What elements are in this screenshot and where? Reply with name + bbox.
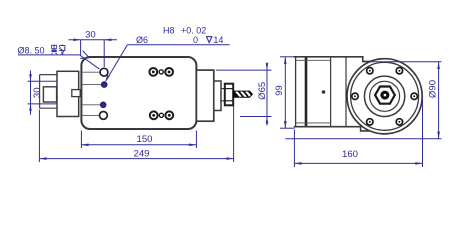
spindle second step xyxy=(214,81,221,111)
screw 3 o'clock xyxy=(411,93,417,99)
dim Ø90 xyxy=(285,62,441,139)
housing inner lines xyxy=(296,60,331,123)
spindle stub xyxy=(221,89,225,101)
svg-text:14: 14 xyxy=(213,35,223,45)
svg-text:Ø6: Ø6 xyxy=(136,35,148,45)
dim 160 xyxy=(294,99,422,167)
dim Ø65 xyxy=(216,63,272,126)
housing flange thick edge xyxy=(305,57,308,127)
main body xyxy=(81,57,196,129)
housing left edge xyxy=(295,57,297,127)
svg-text:30: 30 xyxy=(85,30,96,41)
svg-text:Ø65: Ø65 xyxy=(257,82,268,100)
bearing inner circle xyxy=(370,81,400,111)
dim 150 xyxy=(81,131,196,149)
hanzi guan (through) xyxy=(51,45,57,55)
hole D xyxy=(100,112,108,120)
bearing circle xyxy=(364,76,404,116)
screw 7 o'clock xyxy=(367,119,373,125)
screw 5 o'clock xyxy=(396,119,402,125)
spindle nose cylinder Ø65 xyxy=(196,70,213,121)
housing tangent edge xyxy=(345,57,347,127)
svg-text:0: 0 xyxy=(193,35,198,45)
hole centerlines xyxy=(82,72,101,115)
hole C xyxy=(100,102,106,108)
housing dot xyxy=(322,90,326,94)
svg-text:99: 99 xyxy=(274,85,285,96)
dim 30 top xyxy=(69,40,118,67)
bolt pair top xyxy=(149,68,173,76)
hole A (Ø8.50 through) xyxy=(100,68,108,76)
shaft base cylinder xyxy=(40,75,57,109)
collet nut xyxy=(225,84,233,106)
screw 9 o'clock xyxy=(352,93,358,99)
dim 30 left xyxy=(28,71,58,115)
svg-text:160: 160 xyxy=(342,149,358,160)
bolt pair bottom xyxy=(150,111,173,119)
shaft key block xyxy=(43,87,56,102)
svg-text:+0. 02: +0. 02 xyxy=(181,25,206,35)
housing inner edge xyxy=(330,57,332,127)
housing top edge xyxy=(294,57,372,131)
flange circle Ø90 xyxy=(351,62,419,130)
dim 99 xyxy=(280,57,296,128)
flange outer circle xyxy=(347,59,422,134)
dim 249 xyxy=(39,106,233,162)
hole B (Ø6 H8) xyxy=(101,82,107,88)
svg-text:150: 150 xyxy=(136,134,152,145)
svg-text:Ø8. 50: Ø8. 50 xyxy=(18,45,45,55)
hex nut xyxy=(375,87,395,104)
center hole xyxy=(380,91,389,100)
svg-text:249: 249 xyxy=(133,148,149,159)
screw 1 o'clock xyxy=(396,68,402,74)
hanzi chuan (pierce) xyxy=(59,44,65,54)
screw 11 o'clock xyxy=(367,68,373,74)
svg-text:H8: H8 xyxy=(163,25,175,35)
flange notch xyxy=(72,90,80,97)
shaft step flange xyxy=(57,71,79,116)
svg-text:30: 30 xyxy=(32,87,43,98)
drill bit xyxy=(233,91,252,98)
svg-text:Ø90: Ø90 xyxy=(427,80,438,98)
